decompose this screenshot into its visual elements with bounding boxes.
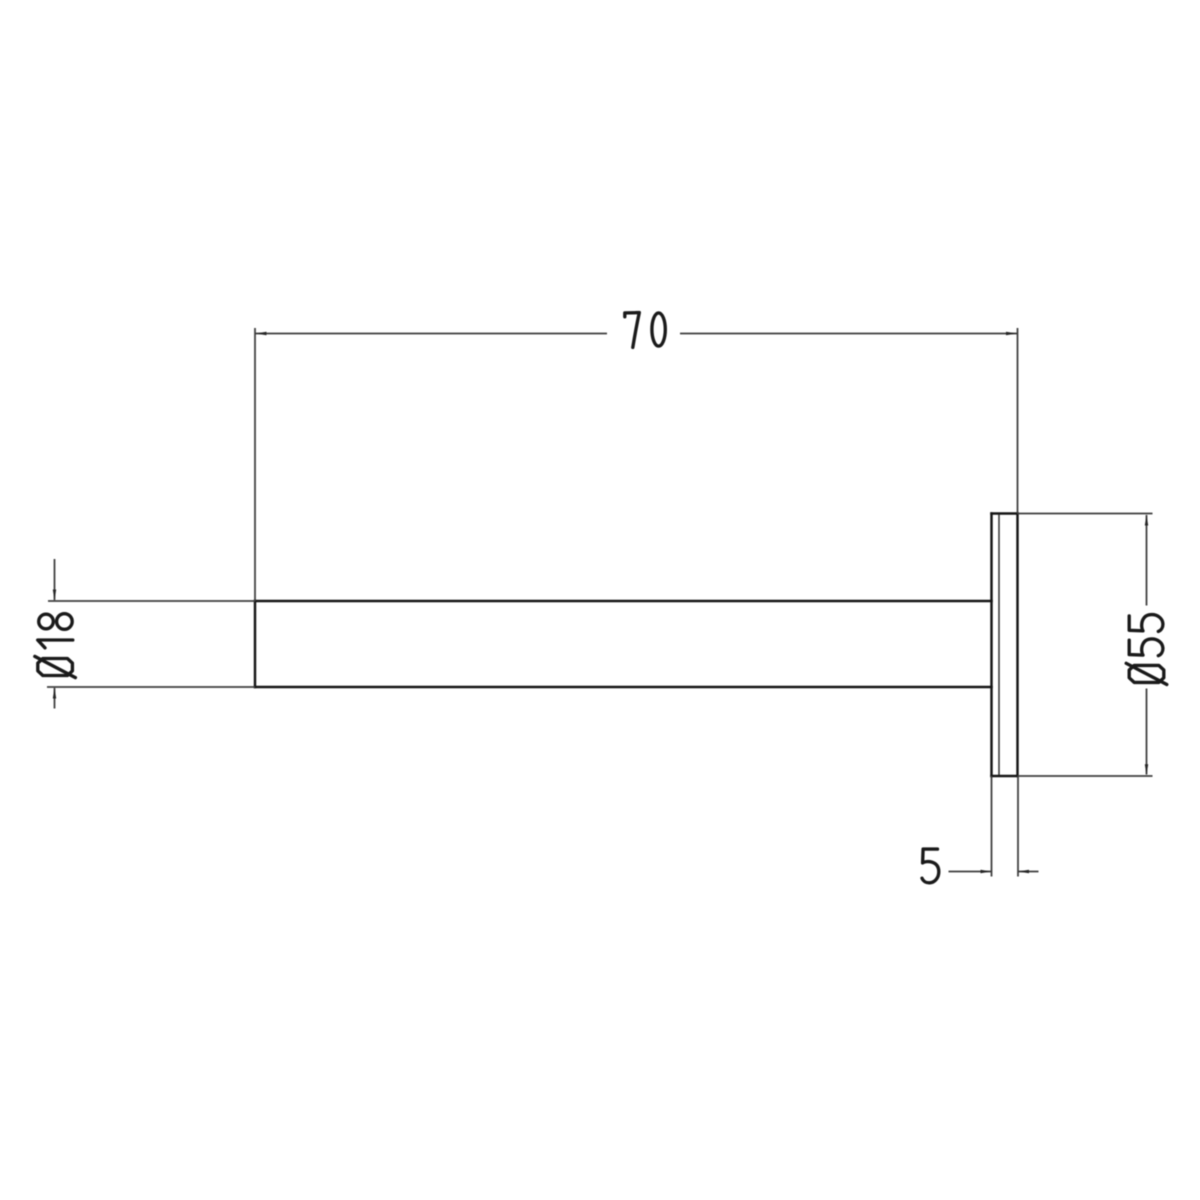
dimension O18: dimension line segments bbox=[54, 559, 56, 600]
rod body (shaft) outline bbox=[255, 601, 992, 687]
dimension O55: extension lines bbox=[1018, 513, 1153, 515]
dimension 70: dimension line bbox=[255, 333, 607, 335]
dimension 70: extension lines bbox=[254, 328, 256, 601]
dimension 5: dimension line segments bbox=[949, 871, 992, 873]
dimension O55: rotated text "O55" bbox=[1126, 615, 1167, 685]
dimension 5: extension lines bbox=[991, 776, 993, 877]
dimension O18: arrowheads bbox=[53, 590, 56, 601]
dimension O18: extension lines bbox=[48, 600, 255, 602]
dimension O18: rotated text "O18" bbox=[35, 614, 76, 678]
dimension 5: text "5" bbox=[922, 849, 939, 883]
dimension 70: text "70" bbox=[625, 313, 666, 348]
dimension 70: arrowheads bbox=[256, 332, 267, 335]
dimension 5: arrowheads bbox=[981, 870, 992, 873]
flange inner edge line bbox=[998, 515, 1000, 776]
dimension O55: arrowheads bbox=[1145, 515, 1148, 526]
wall flange plate outline bbox=[992, 514, 1018, 777]
dimension O55: dimension line segments bbox=[1146, 515, 1148, 606]
